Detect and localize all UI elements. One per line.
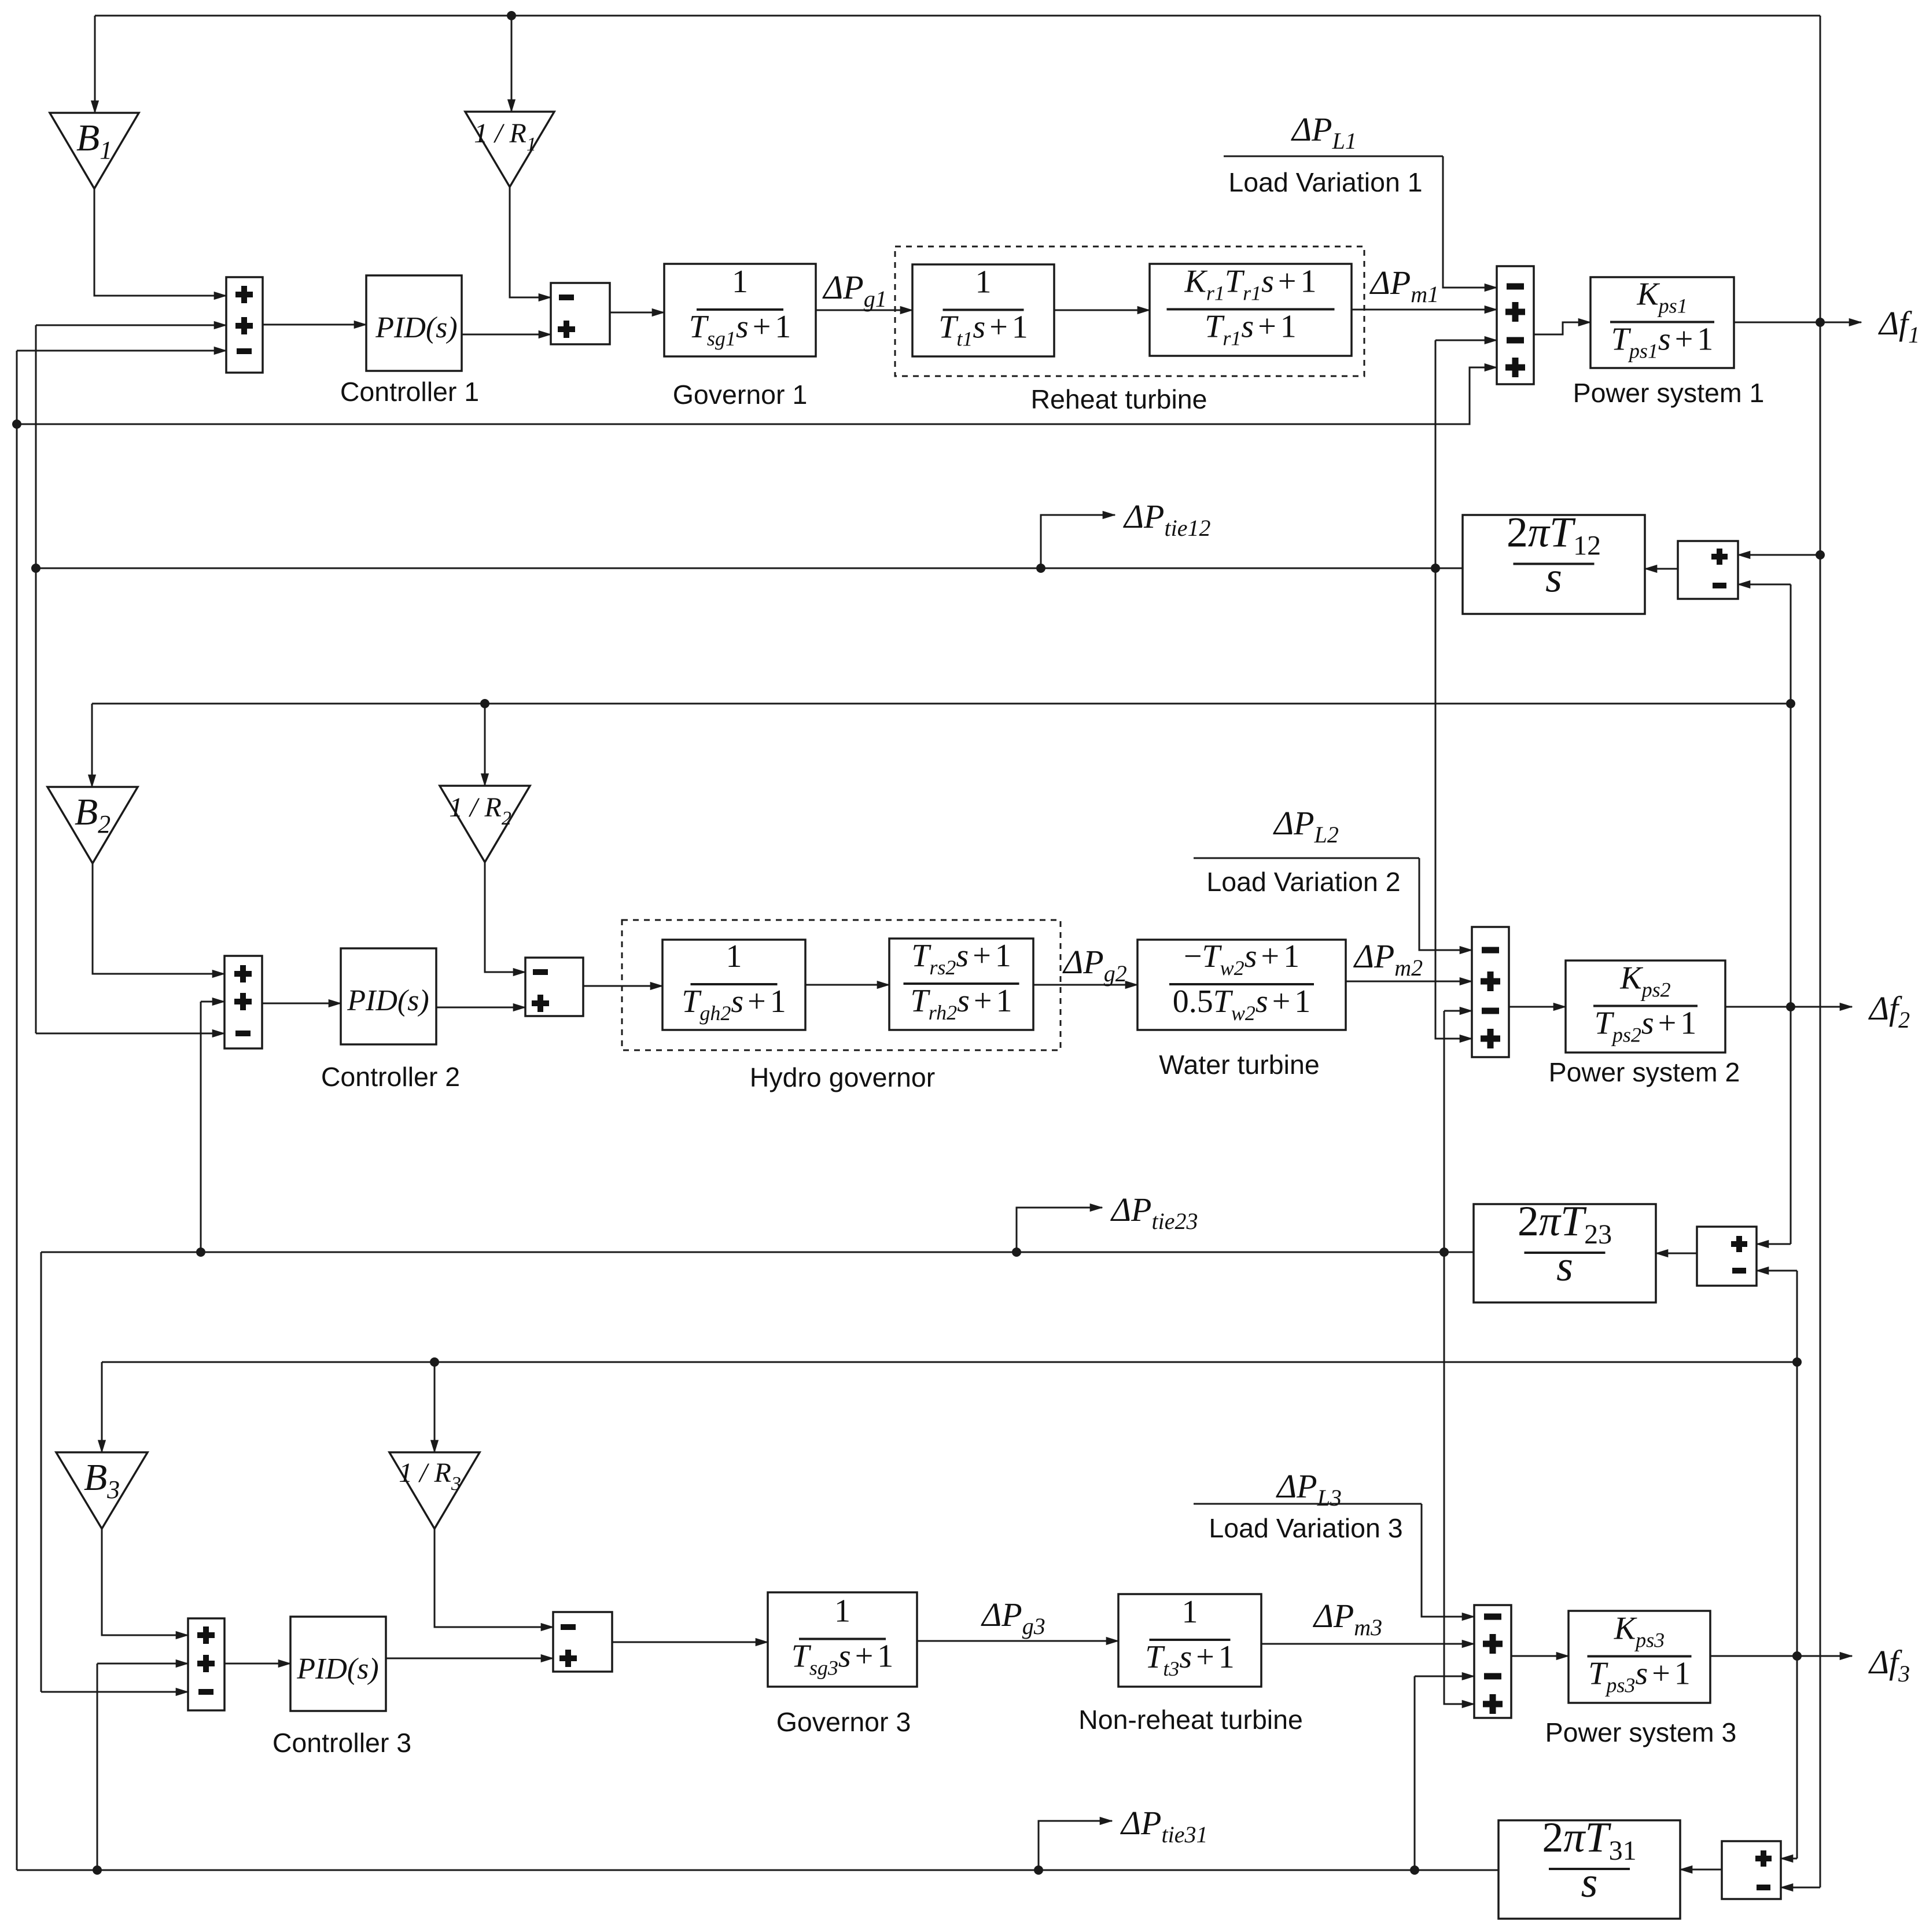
- summing junction SR3 (governor 3 input): [553, 1612, 612, 1672]
- wire tie23 output bus: [41, 1252, 1474, 1253]
- svg-text:Tps1s+1: Tps1s+1: [1611, 322, 1714, 363]
- value label of block Power system 2: fraction bar: [1593, 1005, 1698, 1007]
- value label of block tie-line 2piT12/s: fraction bar: [1514, 563, 1595, 565]
- sign + of summing junction SR3 input 2: [559, 1650, 577, 1667]
- sign + of summing junction T31 input 1: [1755, 1850, 1772, 1867]
- wire DeltaPL1 into summer P1 minus: [1443, 156, 1497, 288]
- wire Delta-f2 output: [1725, 1006, 1852, 1008]
- wire DeltaPtie12 tap: [1041, 515, 1115, 568]
- wire DeltaPtie23 tap: [1017, 1208, 1102, 1252]
- sign - of summing junction P3 input 1: [1484, 1614, 1501, 1620]
- wire T12 summer output to 2piT12: [1645, 568, 1678, 570]
- svg-text:Tt1s+1: Tt1s+1: [938, 310, 1028, 351]
- svg-text:Trh2s+1: Trh2s+1: [911, 983, 1012, 1024]
- block Governor 3: [768, 1592, 917, 1687]
- svg-text:Power system 3: Power system 3: [1545, 1717, 1737, 1747]
- wire tie31 feedback into S1 minus: [17, 350, 226, 352]
- svg-text:Tgh2s+1: Tgh2s+1: [682, 984, 786, 1025]
- summing junction P3 (power system 3 input): [1474, 1605, 1511, 1718]
- gain 1/R2: [440, 786, 530, 862]
- gain B2: [47, 787, 138, 863]
- svg-text:Tps2s+1: Tps2s+1: [1595, 1006, 1697, 1047]
- wire tie31 riser area3: [1414, 1676, 1416, 1870]
- sign - of summing junction P3 input 3: [1484, 1673, 1501, 1680]
- block Governor 1: [664, 264, 816, 356]
- wire feed to gain B1: [94, 16, 96, 113]
- svg-text:1: 1: [975, 264, 992, 300]
- wire Delta-f2 into T12 minus: [1738, 584, 1791, 586]
- wire tie12 feedback into S1 plus: [36, 325, 226, 326]
- controller block PID 2: [341, 948, 436, 1044]
- gain 1/R3: [389, 1452, 480, 1529]
- sign - of summing junction SR3 input 1: [561, 1624, 576, 1630]
- wire PID 1 output to summer SR1: [462, 334, 551, 336]
- summing junction S2 (ACE area 2): [224, 956, 262, 1048]
- wire Delta-f2 bus to B2 and 1/R2: [92, 703, 1791, 705]
- node junction tie12 to left riser: [31, 564, 40, 573]
- wire DeltaPL3 into summer P3 minus: [1422, 1504, 1474, 1617]
- wire tie12 into P1 minus: [1435, 340, 1497, 341]
- wire tie23 into P2 minus: [1444, 1010, 1472, 1012]
- wire 1/R2 output to summer SR2: [485, 862, 525, 972]
- wire tie31 left riser up to S1: [16, 351, 18, 1870]
- svg-text:Reheat turbine: Reheat turbine: [1030, 384, 1207, 414]
- sign + of summing junction P3 input 2: [1483, 1634, 1503, 1654]
- node junction Delta-f3 bus: [1792, 1357, 1802, 1367]
- wire Delta-f3 bus to B3 and 1/R3: [102, 1361, 1797, 1363]
- wire Delta-f1 into T12 plus: [1738, 554, 1820, 556]
- value label of block hydro governor stage 1: fraction bar: [691, 983, 778, 985]
- wire tie12 left riser down to S2: [35, 568, 37, 1033]
- wire P2 output to power system 2: [1509, 1006, 1566, 1008]
- node junction tie31 to area3 riser: [1410, 1865, 1419, 1875]
- sign + of summing junction SR1 input 2: [558, 321, 575, 338]
- dashed group Reheat turbine: [895, 246, 1364, 376]
- wire tie23 feedback into S3 minus: [41, 1691, 188, 1693]
- sign - of summing junction SR2 input 1: [533, 969, 548, 975]
- sign + of summing junction P3 input 4: [1483, 1694, 1503, 1714]
- wire tie23 feedback into S2 plus: [201, 1001, 224, 1003]
- wire feed to gain 1/R3: [434, 1362, 436, 1452]
- svg-text:Hydro governor: Hydro governor: [750, 1062, 935, 1092]
- svg-text:PID(s): PID(s): [375, 311, 458, 344]
- wire feed to gain B2: [91, 704, 93, 787]
- svg-text:PID(s): PID(s): [347, 984, 429, 1017]
- value label of block Governor 3: fraction bar: [799, 1638, 886, 1640]
- summing junction T31: [1722, 1841, 1781, 1899]
- wire PID 3 output to summer SR3: [386, 1658, 553, 1659]
- wire PID 2 output to summer SR2: [436, 1007, 525, 1009]
- wire tie31 output bus: [17, 1870, 1498, 1871]
- sign + of summing junction S2 input 2: [234, 993, 252, 1010]
- svg-text:Power system 2: Power system 2: [1549, 1057, 1740, 1087]
- wire T31 summer output to 2piT31: [1680, 1869, 1722, 1871]
- wire T23 summer output to 2piT23: [1656, 1253, 1697, 1254]
- wire feed to gain B3: [101, 1362, 103, 1452]
- wire tie23 riser down to P3 plus: [1444, 1252, 1474, 1704]
- wire tie12 riser area1: [1435, 340, 1437, 568]
- svg-text:s: s: [1545, 554, 1562, 602]
- sign - of summing junction S2 input 3: [235, 1031, 251, 1036]
- wire DeltaPm3 into summer P3: [1261, 1643, 1474, 1645]
- wire S1 output to PID controller 1: [263, 324, 366, 326]
- wire 1/R3 output to summer SR3: [435, 1529, 553, 1627]
- sign + of summing junction T12 input 1: [1711, 549, 1728, 565]
- block hydro governor stage 1: [662, 940, 805, 1030]
- sign - of summing junction P1 input 1: [1507, 284, 1524, 290]
- sign + of summing junction S3 input 1: [197, 1626, 215, 1644]
- svg-text:Tsg1s+1: Tsg1s+1: [689, 309, 791, 350]
- summing junction T12: [1678, 541, 1738, 599]
- node junction tie31 riser row1: [12, 419, 21, 429]
- svg-text:Governor 1: Governor 1: [673, 380, 808, 410]
- node junction tie12 tap: [1036, 564, 1045, 573]
- block Power system 2: [1566, 961, 1725, 1053]
- wire DeltaPm2 into summer P2: [1346, 981, 1472, 982]
- wire tie12 left riser up to S1: [35, 325, 37, 568]
- svg-text:Controller 1: Controller 1: [340, 377, 479, 407]
- sign + of summing junction P1 input 4: [1505, 358, 1525, 377]
- wire B1 output to summer S1: [94, 189, 226, 296]
- svg-text:Tsg3s+1: Tsg3s+1: [791, 1639, 894, 1680]
- svg-text:Non-reheat turbine: Non-reheat turbine: [1078, 1705, 1303, 1735]
- node junction tie31 tap: [1034, 1865, 1043, 1875]
- wire Delta-f1 feedback top bus: [95, 15, 1820, 17]
- summing junction S3 (ACE area 3): [188, 1618, 224, 1710]
- wire SR2 output to hydro governor: [583, 985, 662, 987]
- sign + of summing junction S1 input 2: [235, 317, 253, 334]
- sign + of summing junction T23 input 1: [1731, 1236, 1747, 1252]
- sign + of summing junction P1 input 2: [1505, 302, 1525, 322]
- value label of block Power system 1: fraction bar: [1610, 321, 1714, 323]
- svg-text:Power system 1: Power system 1: [1573, 378, 1765, 408]
- value label of block hydro governor stage 2: fraction bar: [904, 982, 1019, 985]
- block tie-line 2piT12/s: [1463, 515, 1645, 614]
- block Power system 1: [1590, 277, 1734, 368]
- wire DeltaPtie31 tap: [1039, 1821, 1112, 1870]
- svg-text:Controller 3: Controller 3: [273, 1728, 411, 1758]
- block reheat stage K_r1: [1150, 264, 1352, 356]
- svg-text:1: 1: [834, 1594, 850, 1629]
- sign + of summing junction S1 input 1: [235, 286, 253, 303]
- svg-text:Trs2s+1: Trs2s+1: [911, 938, 1011, 979]
- node junction tie23 to S2 riser: [196, 1247, 205, 1257]
- sign - of summing junction P2 input 3: [1482, 1008, 1499, 1014]
- wire SR1 output to governor 1: [610, 312, 664, 314]
- node junction tie31 to S3 riser: [93, 1865, 102, 1875]
- wire feed to gain 1/R1: [511, 16, 513, 112]
- sign - of summing junction SR1 input 1: [559, 295, 574, 300]
- sign - of summing junction T12 input 2: [1713, 583, 1726, 588]
- sign - of summing junction S3 input 3: [198, 1689, 213, 1695]
- summing junction S1 (ACE area 1): [226, 277, 263, 373]
- wire tie31 riser to S3: [97, 1664, 98, 1870]
- wire tie12 riser down to P2 plus: [1435, 568, 1472, 1039]
- wire tie31 feedback into S3 plus: [97, 1663, 188, 1665]
- wire P1 output to power system 1: [1534, 322, 1590, 334]
- wire P3 output to power system 3: [1511, 1655, 1568, 1657]
- svg-text:s: s: [1581, 1859, 1598, 1907]
- sign - of summing junction P2 input 1: [1482, 947, 1499, 954]
- sign - of summing junction P1 input 3: [1507, 337, 1524, 344]
- block tie-line 2piT23/s: [1474, 1204, 1656, 1302]
- sign - of summing junction T31 input 2: [1757, 1885, 1770, 1890]
- svg-text:1: 1: [732, 264, 748, 300]
- gain B3: [56, 1452, 148, 1529]
- value label of block Non-reheat turbine: fraction bar: [1150, 1639, 1231, 1641]
- value label of block Water turbine: fraction bar: [1169, 983, 1314, 985]
- block Power system 3: [1568, 1611, 1710, 1703]
- wire Delta-f3 into T23 minus: [1757, 1270, 1797, 1272]
- wire tie12 feedback into S2 minus: [36, 1033, 224, 1035]
- wire tie31 spur row1: [17, 367, 1497, 424]
- node junction Delta-f2 bus: [1786, 699, 1795, 708]
- wire feed to gain 1/R2: [484, 704, 486, 786]
- summing junction T23: [1697, 1227, 1757, 1286]
- wire B3 output to summer S3: [102, 1529, 188, 1635]
- node junction Delta-f1 to T12: [1816, 550, 1825, 560]
- wire DeltaPm1 into summer P1: [1352, 309, 1497, 311]
- dashed group Hydro governor: [622, 920, 1061, 1050]
- wire Delta-f2 into T23 plus: [1757, 1243, 1791, 1245]
- sign - of summing junction T23 input 2: [1732, 1268, 1746, 1274]
- sign + of summing junction SR2 input 2: [532, 995, 549, 1012]
- svg-text:Governor 3: Governor 3: [776, 1707, 911, 1737]
- svg-text:PID(s): PID(s): [296, 1653, 379, 1686]
- wire DeltaPL2 into summer P2 minus: [1419, 858, 1472, 950]
- underline of load variation 1: [1224, 156, 1443, 157]
- wire T_t1 to reheat stage: [1054, 310, 1150, 311]
- block tie-line 2piT31/s: [1498, 1820, 1680, 1919]
- node junction Delta-f1: [1816, 318, 1825, 327]
- svg-text:s: s: [1556, 1243, 1573, 1290]
- block Water turbine: [1137, 940, 1346, 1030]
- underline of load variation 2: [1194, 858, 1419, 859]
- svg-text:Load Variation 2: Load Variation 2: [1206, 867, 1400, 897]
- value label of block tie-line 2piT23/s: fraction bar: [1525, 1252, 1606, 1254]
- wire Delta-f1 into tie31 minus: [1781, 1887, 1820, 1889]
- svg-text:Controller 2: Controller 2: [321, 1062, 460, 1092]
- wire governor 1 output DeltaPg1: [816, 310, 912, 311]
- summing junction SR2 (hydro governor input): [525, 958, 583, 1016]
- block turbine T_t1: [912, 264, 1054, 356]
- wire hydro stage1 to stage2: [805, 984, 889, 986]
- sign + of summing junction S3 input 2: [197, 1655, 215, 1672]
- svg-text:Tt3s+1: Tt3s+1: [1145, 1639, 1235, 1680]
- node junction top bus to 1/R1: [507, 11, 516, 20]
- wire S3 output to PID controller 3: [224, 1663, 290, 1665]
- block hydro governor stage 2: [889, 939, 1033, 1030]
- gain 1/R1: [465, 112, 554, 187]
- wire tie23 riser area2: [1444, 1011, 1445, 1252]
- sign - of summing junction S1 input 3: [237, 348, 252, 354]
- value label of block Governor 1: fraction bar: [697, 308, 783, 311]
- wire DeltaPg2 to water turbine: [1033, 984, 1137, 986]
- node junction bus to 1/R2: [480, 699, 489, 708]
- node junction tie12 to area1 riser: [1431, 564, 1440, 573]
- block Non-reheat turbine: [1118, 1594, 1261, 1687]
- wire 1/R1 output to summer SR1: [510, 187, 551, 297]
- wire tie23 riser up to S2: [200, 1002, 202, 1252]
- wire tie12 output bus: [36, 568, 1463, 569]
- summing junction SR1 (governor 1 input): [551, 283, 610, 344]
- node junction tie23 tap: [1012, 1247, 1021, 1257]
- value label of block tie-line 2piT31/s: fraction bar: [1549, 1868, 1630, 1870]
- node junction Delta-f3: [1792, 1651, 1802, 1661]
- wire S2 output to PID controller 2: [262, 1003, 341, 1004]
- svg-text:Tps3s+1: Tps3s+1: [1588, 1656, 1691, 1697]
- node junction bus to 1/R3: [430, 1357, 439, 1367]
- summing junction P2 (power system 2 input): [1472, 927, 1509, 1057]
- value label of block Power system 3: fraction bar: [1588, 1655, 1692, 1658]
- svg-text:Water turbine: Water turbine: [1159, 1050, 1319, 1080]
- svg-text:Tr1s+1: Tr1s+1: [1205, 309, 1297, 350]
- value label of block reheat stage K_r1: fraction bar: [1167, 308, 1335, 311]
- wire B2 output to summer S2: [93, 863, 224, 974]
- wire Delta-f3 output: [1710, 1655, 1852, 1657]
- wire tie31 into P3 minus: [1415, 1676, 1474, 1677]
- svg-text:1: 1: [1182, 1594, 1198, 1630]
- controller block PID 1: [366, 275, 462, 371]
- svg-text:Load Variation 3: Load Variation 3: [1209, 1513, 1402, 1543]
- wire SR3 output to governor 3: [612, 1642, 768, 1643]
- wire Delta-f3 feedback vertical: [1796, 1271, 1798, 1859]
- wire Delta-f1 feedback right vertical: [1820, 16, 1821, 1887]
- value label of block turbine T_t1: fraction bar: [943, 309, 1024, 311]
- wire Delta-f1 output: [1734, 322, 1861, 323]
- wire Delta-f3 into T31 plus: [1781, 1858, 1797, 1860]
- node junction tie23 to area3 riser: [1439, 1247, 1449, 1257]
- gain B1: [50, 113, 139, 189]
- svg-text:Load Variation 1: Load Variation 1: [1228, 167, 1422, 197]
- svg-text:1: 1: [726, 939, 742, 974]
- sign + of summing junction S2 input 1: [234, 965, 252, 982]
- wire Delta-f2 feedback vertical: [1790, 584, 1792, 1244]
- wire governor 3 output DeltaPg3: [917, 1640, 1118, 1642]
- summing junction P1 (power system 1 input): [1497, 266, 1534, 384]
- underline of load variation 3: [1194, 1503, 1422, 1505]
- sign + of summing junction P2 input 4: [1481, 1029, 1500, 1048]
- node junction Delta-f2: [1786, 1002, 1795, 1011]
- wire tie23 left riser down to S3: [40, 1252, 42, 1692]
- controller block PID 3: [290, 1617, 386, 1711]
- sign + of summing junction P2 input 2: [1481, 971, 1500, 991]
